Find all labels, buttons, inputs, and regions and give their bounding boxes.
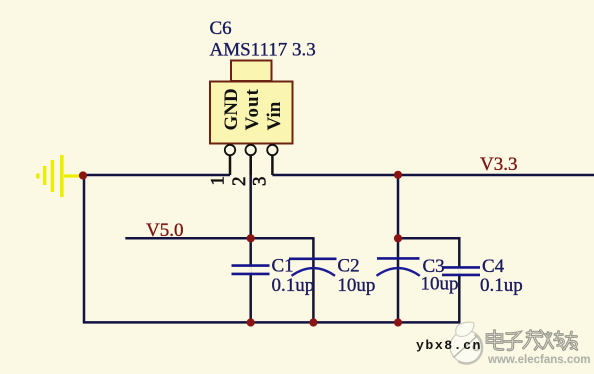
- junction C1 bottom: [247, 318, 255, 326]
- svg-text:AMS1117 3.3: AMS1117 3.3: [210, 40, 316, 61]
- junction V3.3: [394, 171, 402, 179]
- wire GND horizontal from ground to pin 1: [83, 174, 230, 177]
- capacitor C1: [232, 266, 270, 274]
- pin 2 stub: [246, 145, 256, 175]
- wire branch C3 junction to C4: [398, 237, 461, 240]
- watermark chinese char zi: [505, 333, 522, 350]
- svg-text:3: 3: [249, 177, 270, 187]
- pin 1 stub: [225, 145, 235, 175]
- svg-text:Vin: Vin: [264, 101, 285, 130]
- svg-text:ybx8.cn: ybx8.cn: [416, 338, 482, 353]
- junction V5.0/C1: [247, 234, 255, 242]
- wire V3.3 from pin 3 to right edge: [272, 174, 594, 177]
- watermark chinese char shao: [544, 332, 565, 350]
- watermark chinese char fa: [524, 331, 544, 350]
- watermark chinese char dian: [487, 331, 503, 350]
- watermark logo circle: [450, 322, 482, 363]
- svg-text:10up: 10up: [337, 275, 375, 296]
- svg-text:C2: C2: [337, 255, 359, 276]
- regulator U C6 body: [210, 82, 293, 144]
- wire C2 vertical drop: [312, 237, 315, 322]
- capacitor C2 (polarized): [289, 259, 337, 276]
- wire pin2/C1 vertical: [249, 156, 252, 322]
- wire C4 vertical drop: [458, 237, 461, 322]
- wire V5.0 stub to junction: [125, 237, 250, 240]
- svg-text:0.1up: 0.1up: [480, 275, 523, 296]
- svg-text:1: 1: [208, 176, 229, 186]
- junction C3 top: [394, 234, 402, 242]
- wire GND bottom rail: [83, 321, 461, 324]
- svg-text:Vout: Vout: [242, 88, 263, 130]
- svg-text:V5.0: V5.0: [146, 220, 183, 241]
- ground: [38, 155, 81, 197]
- junction C3 bottom: [394, 318, 402, 326]
- wire branch junction to C2: [251, 237, 314, 240]
- wire GND vertical left rail: [83, 175, 86, 322]
- regulator U C6 tab: [231, 61, 272, 82]
- svg-text:10up: 10up: [421, 274, 459, 295]
- svg-text:C4: C4: [482, 256, 505, 277]
- capacitor C3 (polarized): [377, 258, 420, 275]
- capacitor C4: [442, 267, 480, 275]
- svg-text:2: 2: [229, 177, 250, 187]
- svg-text:0.1up: 0.1up: [272, 275, 315, 296]
- svg-text:GND: GND: [221, 88, 242, 130]
- svg-text:www.elecfans.com: www.elecfans.com: [487, 354, 590, 366]
- watermark chinese char you: [564, 332, 577, 350]
- svg-text:C6: C6: [210, 18, 232, 39]
- svg-text:V3.3: V3.3: [480, 154, 517, 175]
- pin 3 stub: [267, 145, 277, 175]
- wire V3.3 drop to C3 junction: [397, 175, 400, 238]
- watermark text www.elecfans.com: [487, 354, 591, 367]
- junction ground-left: [79, 171, 87, 179]
- junction C2 bottom: [309, 318, 317, 326]
- wire C3 vertical: [397, 238, 400, 322]
